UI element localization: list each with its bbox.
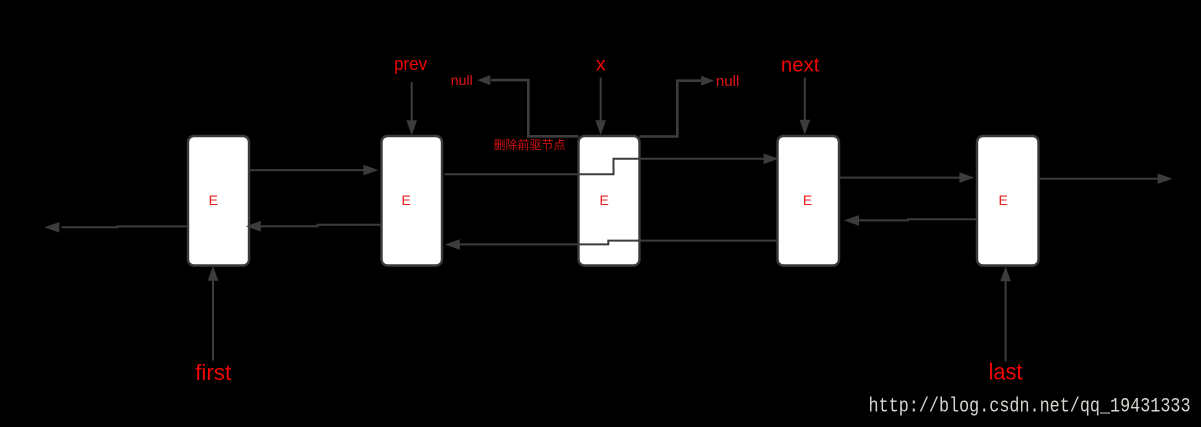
- node box B4: [778, 136, 840, 266]
- wire next arrow down to B4: [804, 78, 806, 121]
- svg-text:http://blog.csdn.net/qq_194313: http://blog.csdn.net/qq_19431333: [869, 396, 1191, 419]
- wire B2.prev arrow back to B1: [261, 225, 382, 227]
- node box B1: [188, 136, 249, 266]
- node box B5: [977, 136, 1039, 266]
- svg-text:next: next: [781, 54, 820, 76]
- svg-text:E: E: [209, 192, 218, 208]
- wire B5.prev arrow back to B4: [859, 219, 978, 220]
- wire B4.prev stepped arrow back to B2: [460, 241, 778, 245]
- wire B3.next to right null: [640, 81, 702, 137]
- svg-text:E: E: [402, 192, 411, 208]
- node box B2: [382, 136, 443, 266]
- wire B1.next forward arrow to B2: [250, 169, 365, 171]
- svg-text:删除前驱节点: 删除前驱节点: [494, 137, 566, 152]
- wire B5.next arrow to far right: [1040, 178, 1159, 180]
- svg-text:first: first: [195, 360, 232, 385]
- wire B4.next forward arrow to B5: [840, 177, 960, 179]
- wire B1.prev arrow to far left: [62, 225, 189, 228]
- wire B2.next stepped arrow to B4: [445, 159, 765, 175]
- svg-text:E: E: [999, 192, 1008, 208]
- wire x arrow down to B3: [600, 78, 602, 122]
- wire first arrow up to B1: [212, 281, 214, 361]
- svg-text:null: null: [451, 72, 473, 88]
- svg-text:last: last: [989, 359, 1024, 385]
- node box B3: [579, 136, 640, 266]
- svg-text:E: E: [600, 192, 609, 208]
- wire prev arrow down to B2: [411, 82, 413, 122]
- svg-text:x: x: [596, 54, 606, 76]
- svg-text:null: null: [716, 74, 740, 90]
- wire B3.prev to left null: [491, 80, 579, 136]
- svg-text:prev: prev: [394, 53, 428, 74]
- wire last arrow up to B5: [1005, 281, 1007, 362]
- svg-text:E: E: [803, 192, 812, 208]
